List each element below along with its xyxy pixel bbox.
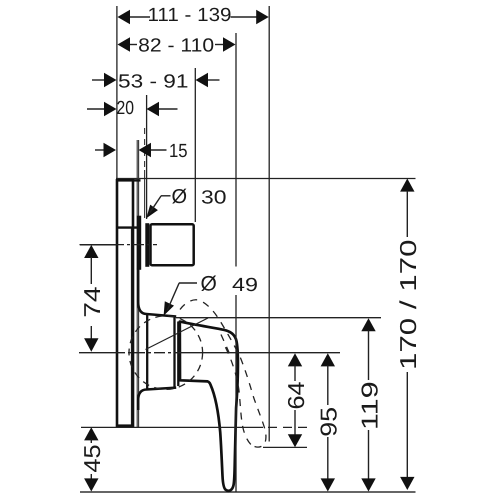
lower escutcheon shell bottom (138, 388, 176, 410)
in-wall body box (116, 180, 140, 425)
dimension 111-139 (118, 5, 269, 26)
svg-text:15: 15 (169, 141, 188, 162)
handle (solid) (180, 322, 238, 491)
box top step (133, 179, 141, 181)
reference line y=447.4 (dashed handle tip) (263, 446, 307, 448)
centerline spout y=244.6 (80, 244, 114, 246)
label D30 leader (146, 196, 170, 218)
extension line x=236 lower part (over handle) (235, 295, 237, 492)
extension line wall (x=116.9) (116, 6, 118, 179)
spout ring 2 (146, 224, 148, 265)
svg-text:111 - 139: 111 - 139 (148, 5, 232, 26)
box inner edge line (130, 228, 132, 425)
dashed handle inner edge (224, 344, 251, 445)
centerline valve y=352.7 (79, 352, 114, 354)
dimension 45 (left, vertical) (79, 427, 105, 491)
svg-text:Ø: Ø (201, 273, 217, 296)
dashed handle grip edge (221, 335, 230, 354)
svg-text:53 - 91: 53 - 91 (118, 71, 189, 92)
centerline valve right part (over handle) (178, 352, 340, 354)
spout escutcheon ring (138, 217, 140, 269)
svg-text:82 - 110: 82 - 110 (138, 36, 214, 57)
hidden dashed line x=144.8 (144, 128, 146, 170)
spout block (D30 pipe) (151, 224, 194, 265)
svg-text:95: 95 (316, 407, 342, 437)
svg-text:74: 74 (79, 286, 105, 318)
reference line escutcheon top y=317.7 (176, 317, 381, 319)
escutcheon cup right edge (173, 317, 175, 388)
dimension 15 (95, 141, 188, 162)
dashed circle D49 (129, 316, 203, 390)
svg-text:45: 45 (79, 444, 105, 472)
reference line top y=178.5 (116, 178, 416, 180)
dimension 64 (vertical) (283, 353, 309, 447)
svg-text:20: 20 (117, 98, 135, 119)
thin diagonal reference line across escutcheon (146, 318, 209, 350)
wall surface thin lines (136, 140, 138, 427)
dimension 119 (vertical) (356, 318, 382, 491)
dimension 95 (vertical) (316, 353, 342, 491)
extension line x=195.3 (53-91 right) (194, 68, 196, 222)
svg-text:30: 30 (201, 187, 227, 208)
reference line y=427.4 (over handle) (81, 426, 263, 428)
svg-text:170 / 170: 170 / 170 (395, 240, 421, 371)
dimension 74 (left, vertical) (79, 245, 120, 352)
dashed handle (alternate position) outer edge (180, 300, 266, 447)
extension line x=146.5 (20 right) (146, 95, 148, 219)
dimension 53-91 (92, 71, 220, 92)
box divider (116, 226, 140, 228)
dimension 170/170 (right, vertical) (395, 179, 421, 491)
reference line bottom y=492 (80, 491, 416, 493)
svg-text:Ø: Ø (172, 186, 188, 208)
label D49 leader (164, 283, 197, 316)
extension line x=236 (82-110 right) (235, 33, 237, 267)
lower escutcheon shell top (138, 268, 176, 317)
svg-text:119: 119 (356, 381, 382, 430)
handle sleeve (177, 322, 179, 387)
escutcheon face (146, 315, 148, 389)
svg-text:64: 64 (283, 381, 309, 409)
extension line x=269.2 (111-139 right) (268, 6, 270, 442)
dimension 82-110 (118, 36, 236, 57)
svg-text:49: 49 (232, 275, 258, 296)
dimension 20 (87, 98, 178, 119)
